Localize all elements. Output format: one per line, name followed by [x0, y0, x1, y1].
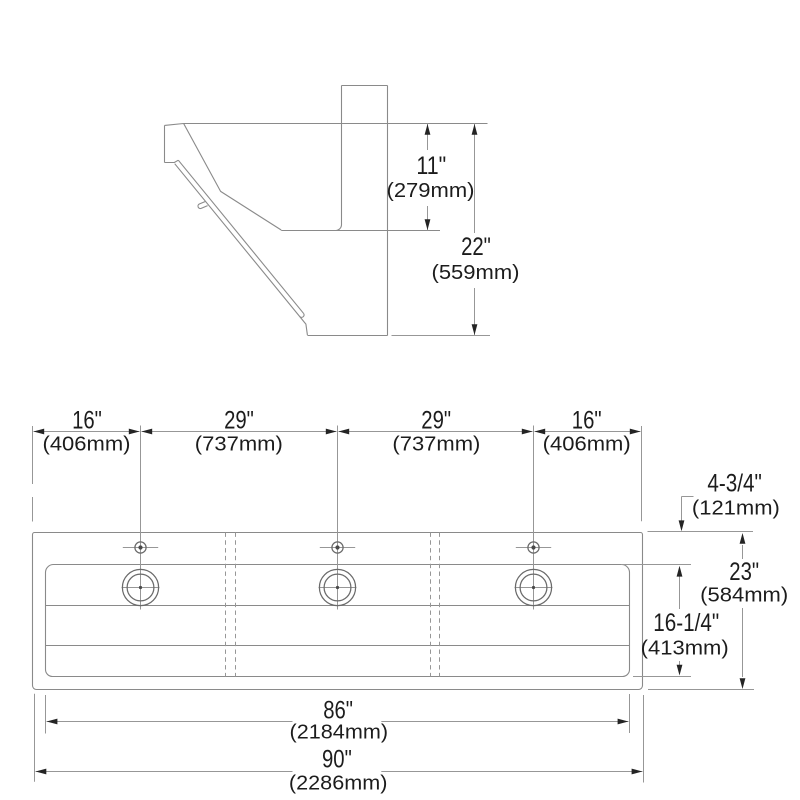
svg-text:29": 29" — [224, 406, 254, 434]
dim 4-3/4 down arrowhead — [679, 520, 685, 531]
faucet 1 hole circle — [135, 542, 146, 553]
svg-text:90": 90" — [322, 745, 352, 773]
drain 2 inner circle — [324, 574, 351, 601]
side view: apron panel upper line — [178, 160, 303, 313]
svg-text:29": 29" — [421, 406, 451, 434]
dim 22in upper line segment — [474, 124, 476, 234]
sink bottom right extension — [648, 689, 754, 691]
front view: outer body outline — [33, 533, 643, 690]
side view: apron panel hem cap — [300, 313, 304, 317]
arrowhead 90 right — [632, 769, 643, 775]
dim 23in lower segment — [742, 608, 744, 677]
dim 22in top arrowhead — [472, 124, 478, 135]
arrowhead 16L outer — [33, 429, 44, 435]
right outer extension line — [641, 426, 643, 521]
side view: rim top line with right extension — [184, 123, 488, 125]
svg-text:16": 16" — [72, 406, 102, 434]
arrowhead 16R outer — [630, 429, 641, 435]
dim 23in down arrowhead — [740, 678, 746, 689]
dim 86in line left part — [47, 721, 293, 723]
arrowhead 16L inner — [129, 429, 140, 435]
svg-text:(584mm): (584mm) — [700, 585, 788, 607]
dim line 16in left — [34, 431, 140, 433]
dim 86in line right part — [381, 721, 628, 723]
faucet 3 hole crosshair — [516, 547, 551, 549]
drain 3 crosshair — [515, 587, 553, 589]
faucet 1 centerline — [140, 426, 142, 610]
front view: basin seam line lower — [46, 645, 630, 647]
svg-text:16": 16" — [572, 406, 602, 434]
dim 16-1/4 down arrowhead — [677, 665, 683, 676]
side view: bottom extension line — [392, 335, 491, 337]
partition seam dashed line 3 — [430, 533, 432, 677]
dim 11in top arrowhead — [425, 124, 431, 135]
side view: bowl inner front slope — [184, 124, 281, 230]
svg-text:86": 86" — [323, 697, 353, 725]
drain 1 crosshair — [122, 587, 160, 589]
drain 2 crosshair — [319, 587, 357, 589]
dim 22in lower line segment — [474, 288, 476, 336]
drain 3 center dot — [532, 586, 535, 589]
side view: pedestal top edge — [342, 85, 388, 87]
arrowhead 86 right — [618, 719, 629, 725]
dim 22in bottom arrowhead — [472, 324, 478, 335]
dim 11in upper line segment — [427, 124, 429, 151]
dim 4-3/4 leader jog — [682, 496, 694, 498]
86in right extension — [629, 694, 631, 733]
faucet 2 hole center dot — [335, 545, 339, 549]
dim 11in lower line segment — [427, 206, 429, 231]
svg-text:(406mm): (406mm) — [43, 433, 131, 455]
dim 16-1/4 upper segment — [679, 576, 681, 609]
front view: basin seam line upper — [46, 605, 630, 607]
arrowhead 86 left — [47, 719, 58, 725]
arrowhead 29L left — [141, 429, 152, 435]
dim 16-1/4 lower segment — [679, 661, 681, 665]
side view: pedestal right edge — [387, 86, 389, 336]
side view: bowl bottom line with extension — [281, 230, 440, 232]
svg-text:(2286mm): (2286mm) — [289, 773, 388, 795]
sink top right extension — [648, 531, 754, 533]
svg-text:(2184mm): (2184mm) — [290, 722, 389, 744]
arrowhead 90 left — [36, 769, 47, 775]
arrowhead 16R inner — [534, 429, 545, 435]
drain 3 outer circle — [515, 569, 551, 605]
dim 23in upper segment — [742, 545, 744, 559]
side view: pedestal left edge with fillet — [336, 86, 342, 231]
dim 16-1/4 up arrowhead — [677, 566, 683, 577]
partition seam dashed line 1 — [225, 533, 227, 677]
side view: left lip top edge — [165, 124, 184, 126]
90in right extension — [643, 695, 645, 783]
svg-text:22": 22" — [461, 233, 491, 261]
dim 4-3/4 leader vertical — [681, 497, 683, 528]
drain 3 inner circle — [520, 574, 547, 601]
side view: left lip outer edge — [164, 125, 166, 162]
faucet 2 hole circle — [332, 542, 343, 553]
drain 2 center dot — [336, 586, 339, 589]
dim 90in line left part — [36, 771, 293, 773]
dim line 29in left — [142, 431, 337, 433]
basin top right extension — [621, 564, 691, 566]
svg-text:(406mm): (406mm) — [543, 433, 631, 455]
svg-text:(279mm): (279mm) — [387, 180, 475, 202]
side view: bottom edge — [307, 335, 387, 337]
dim 11in bottom arrowhead — [425, 219, 431, 230]
dim line 16in right — [535, 431, 641, 433]
svg-text:4-3/4": 4-3/4" — [707, 469, 762, 497]
front view: inner basin panel outline — [46, 565, 630, 677]
86in left extension — [45, 695, 47, 734]
90in left extension — [34, 694, 36, 782]
faucet 3 hole circle — [528, 542, 539, 553]
svg-text:(121mm): (121mm) — [692, 497, 780, 519]
drain 1 center dot — [139, 586, 142, 589]
faucet 1 hole center dot — [138, 545, 142, 549]
drain 2 outer circle — [319, 569, 355, 605]
faucet 2 centerline — [337, 426, 339, 610]
svg-text:16-1/4": 16-1/4" — [653, 609, 719, 637]
svg-text:(737mm): (737mm) — [392, 433, 480, 455]
dim 23in up arrowhead — [740, 533, 746, 544]
arrowhead 29R right — [522, 429, 533, 435]
left outer extension line lower segment — [32, 497, 34, 522]
drain 1 outer circle — [122, 569, 158, 605]
arrowhead 29L right — [326, 429, 337, 435]
left outer extension line upper segment — [32, 426, 34, 484]
partition seam dashed line 2 — [235, 533, 237, 677]
side view: apron panel lower line to bottom bend — [175, 164, 308, 335]
dim line 29in right — [339, 431, 533, 433]
side view: left lip bottom edge — [165, 160, 179, 162]
svg-text:(413mm): (413mm) — [641, 638, 729, 660]
faucet 3 hole center dot — [531, 545, 535, 549]
drain 1 inner circle — [127, 574, 154, 601]
svg-text:11": 11" — [416, 152, 446, 180]
basin bottom right extension — [633, 676, 691, 678]
svg-text:23": 23" — [729, 558, 759, 586]
partition seam dashed line 4 — [439, 533, 441, 677]
svg-text:(559mm): (559mm) — [432, 262, 520, 284]
dim 90in line right part — [381, 771, 642, 773]
svg-text:(737mm): (737mm) — [195, 433, 283, 455]
side view: mounting tab — [198, 202, 208, 209]
faucet 3 centerline — [533, 426, 535, 610]
faucet 2 hole crosshair — [320, 547, 355, 549]
faucet 1 hole crosshair — [123, 547, 158, 549]
arrowhead 29R left — [338, 429, 349, 435]
